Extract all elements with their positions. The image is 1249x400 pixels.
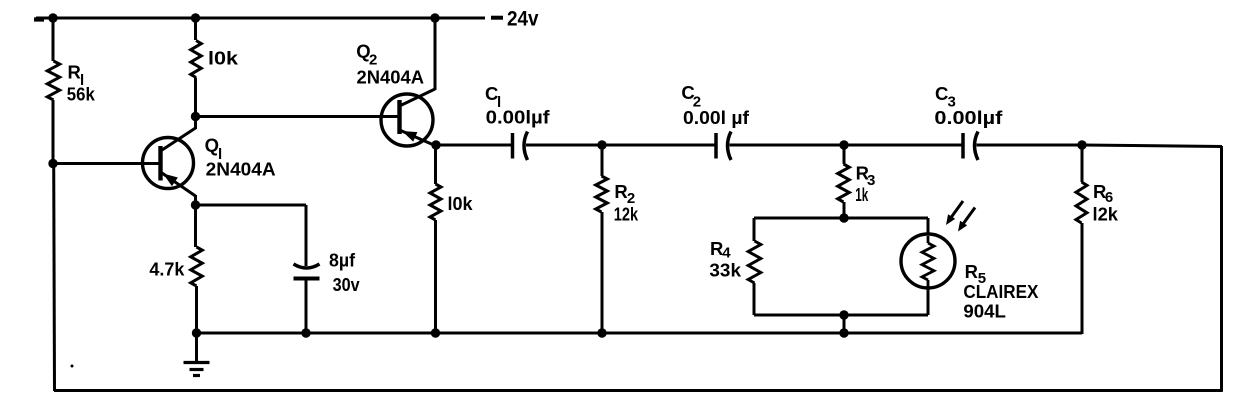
- svg-text:R: R: [68, 62, 81, 83]
- svg-text:2N404A: 2N404A: [357, 67, 425, 88]
- svg-text:0.00l µf: 0.00l µf: [683, 107, 750, 128]
- svg-text:R: R: [965, 261, 978, 282]
- svg-text:904L: 904L: [963, 301, 1006, 322]
- svg-text:l2k: l2k: [1093, 204, 1119, 225]
- svg-text:24v: 24v: [507, 7, 539, 30]
- svg-text:R: R: [614, 181, 627, 202]
- svg-text:l0k: l0k: [448, 193, 474, 214]
- svg-text:CLAIREX: CLAIREX: [963, 281, 1039, 302]
- svg-text:0.00lµf: 0.00lµf: [486, 107, 551, 128]
- svg-text:33k: 33k: [709, 260, 741, 281]
- svg-text:Q: Q: [205, 135, 219, 156]
- svg-text:56k: 56k: [67, 83, 96, 104]
- svg-text:0.00lµf: 0.00lµf: [934, 107, 1003, 128]
- svg-text:C: C: [935, 83, 948, 104]
- svg-text:2N404A: 2N404A: [206, 158, 276, 179]
- svg-text:30v: 30v: [333, 274, 361, 295]
- svg-text:1k: 1k: [855, 184, 868, 205]
- svg-text:8µf: 8µf: [329, 250, 356, 271]
- svg-text:l0k: l0k: [208, 48, 239, 69]
- svg-text:4.7k: 4.7k: [149, 259, 185, 280]
- svg-text:12k: 12k: [614, 203, 639, 224]
